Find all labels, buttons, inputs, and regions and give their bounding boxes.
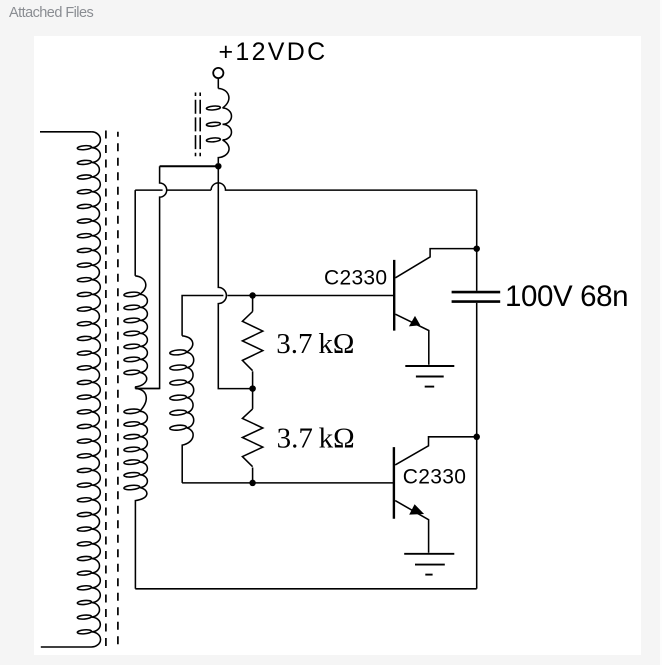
wire terminal to choke — [217, 78, 219, 88]
resistor R1 3.7k — [242, 312, 262, 371]
transistor Q1 base bar — [393, 260, 395, 331]
resistor R1 lead bottom — [252, 371, 254, 388]
wire center tap — [135, 388, 159, 390]
transformer core dashed line left — [105, 131, 107, 649]
transformer primary winding top lead — [40, 131, 92, 133]
wire junction to center-tap drop — [160, 165, 219, 167]
transistor Q2 collector — [395, 437, 474, 465]
svg-text:+12VDC: +12VDC — [219, 38, 328, 66]
wire top rail (with hop over +12V drop) — [135, 183, 477, 190]
resistor R2 lead bottom — [252, 468, 254, 483]
transistor Q1 emitter — [395, 314, 428, 365]
svg-text:3.7 kΩ: 3.7 kΩ — [276, 328, 354, 360]
resistor R1 lead top — [252, 296, 254, 312]
transistor Q2 emitter — [395, 501, 428, 553]
capacitor C1 plates — [452, 291, 501, 294]
node upper collector dot — [473, 245, 480, 252]
wire right rail upper part — [476, 190, 478, 291]
node lower base dot — [249, 480, 256, 487]
wire feedback winding bottom lead to lower base — [182, 482, 393, 484]
wire bottom rail — [135, 588, 476, 590]
+12VDC terminal — [213, 68, 223, 78]
svg-text:3.7 kΩ: 3.7 kΩ — [277, 423, 355, 455]
transistor Q1 collector — [395, 249, 474, 278]
transformer core dashed line right — [117, 132, 119, 648]
transformer upper secondary winding — [124, 276, 148, 389]
node upper base dot — [249, 292, 256, 299]
wire feedback winding top lead — [182, 296, 249, 336]
svg-text:100V 68n: 100V 68n — [505, 280, 628, 313]
wire upper secondary top lead — [134, 190, 136, 276]
resistor R2 3.7k — [242, 409, 262, 467]
svg-text:C2330: C2330 — [403, 465, 466, 488]
ground (lower) — [404, 554, 454, 575]
transistor Q2 emitter arrow — [409, 504, 424, 514]
transformer primary winding — [41, 132, 101, 647]
choke core dashed marks — [195, 93, 197, 157]
transformer feedback winding — [170, 336, 194, 483]
transformer lower secondary winding — [124, 389, 148, 589]
wire center-tap drop with hop over top rail — [135, 166, 166, 388]
transistor Q1 emitter arrow — [409, 316, 420, 327]
wire right rail lower part — [476, 303, 478, 589]
ground (upper) — [405, 366, 454, 387]
transistor Q2 base bar — [393, 447, 395, 519]
wire junction down to resistor midpoint (hop over base rail) — [218, 166, 249, 388]
wire upper base rail — [253, 295, 394, 297]
node: +12V junction dot — [215, 163, 222, 170]
node lower collector dot — [473, 434, 480, 441]
choke inductor L1 — [206, 89, 231, 164]
svg-text:C2330: C2330 — [324, 266, 387, 289]
node resistor midpoint dot — [249, 385, 256, 392]
resistor R2 lead top — [252, 389, 254, 409]
